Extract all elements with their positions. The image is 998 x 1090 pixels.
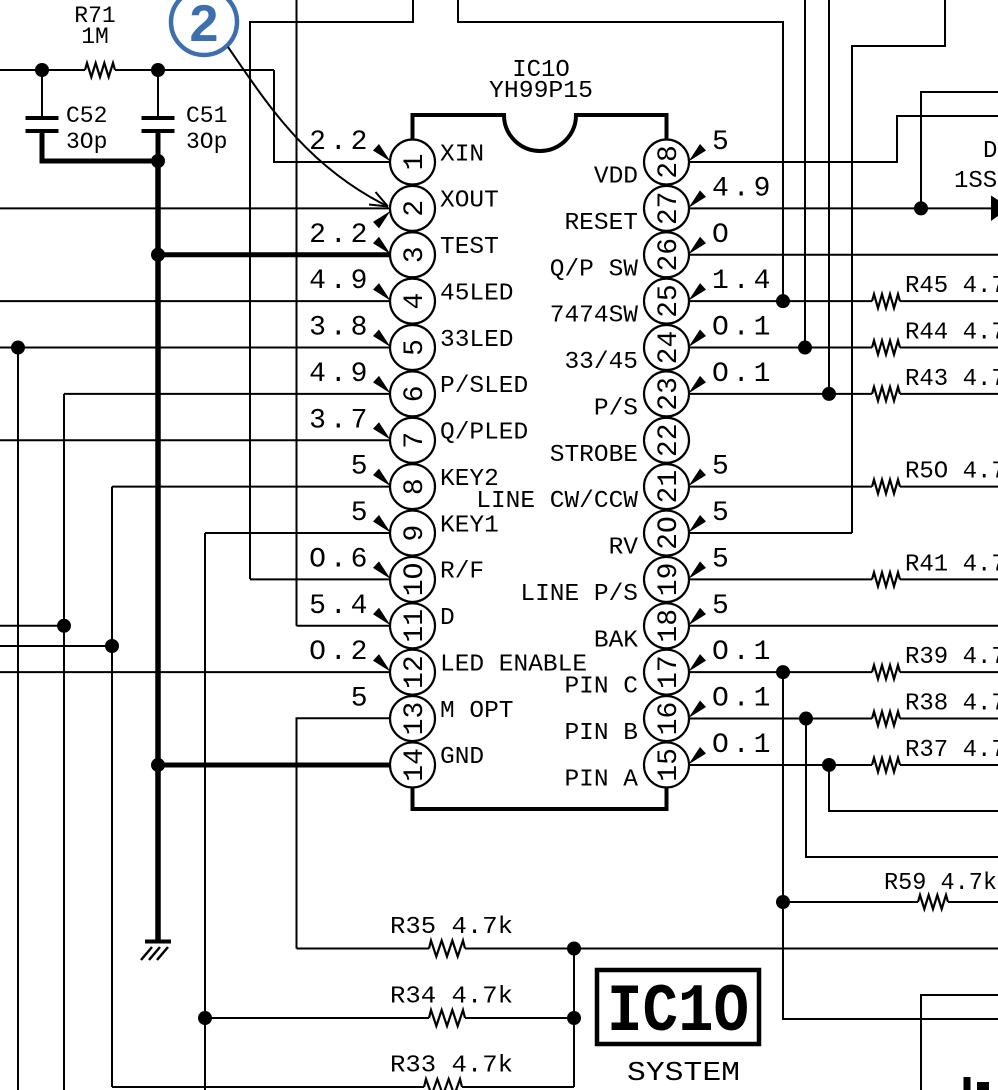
svg-text:2: 2 <box>190 0 219 53</box>
svg-text:16: 16 <box>654 702 685 736</box>
wire R35 row (M OPT net) to right edge <box>297 948 430 950</box>
wire stub left edge y646 to x112 <box>0 645 112 647</box>
pin 18 probe arrow <box>689 608 707 626</box>
svg-text:1SS1: 1SS1 <box>954 168 998 195</box>
junction dot (783,672) <box>776 665 790 679</box>
svg-text:TEST: TEST <box>440 234 499 261</box>
pin 11 probe arrow <box>373 608 391 626</box>
svg-text:3Op: 3Op <box>186 129 227 155</box>
svg-text:19: 19 <box>654 563 685 597</box>
svg-text:13: 13 <box>400 702 431 736</box>
pin 20 probe arrow <box>689 515 707 533</box>
pin 1 probe arrow <box>373 144 391 162</box>
svg-text:STROBE: STROBE <box>550 442 638 469</box>
wire pin9 KEY1 row from x205 <box>205 532 390 534</box>
svg-text:YH99P15: YH99P15 <box>489 78 593 105</box>
IC10 body outline top with notch <box>413 115 667 151</box>
svg-text:BAK: BAK <box>594 627 638 654</box>
svg-text:R59 4.7k: R59 4.7k <box>884 870 997 897</box>
svg-text:XOUT: XOUT <box>440 188 499 215</box>
wire pin4 45LED row from left edge <box>0 300 390 302</box>
wire net P/S from top edge x829 <box>828 0 830 394</box>
pin 27 probe arrow <box>689 190 707 208</box>
wire RESET branch up x921 then right <box>921 92 998 208</box>
wire pin19 LINE-P/S row with R41 <box>690 578 873 580</box>
wire vertical x574 joining R35/R34/R33 <box>573 949 575 1088</box>
pin 15 circle+number <box>644 742 689 787</box>
svg-text:4.9: 4.9 <box>309 266 371 297</box>
wire pin2 XOUT row from left edge <box>0 207 390 209</box>
svg-text:3.7: 3.7 <box>309 405 371 436</box>
svg-text:5: 5 <box>351 452 372 483</box>
pin 20 circle+number <box>644 511 689 556</box>
junction dot bus/TEST (158,255) <box>151 248 165 262</box>
resistor R37 symbol <box>872 758 900 772</box>
pin 28 probe arrow <box>689 144 707 162</box>
wire pin17 PIN-C row with R39 <box>690 671 873 673</box>
resistor R35 symbol <box>429 941 465 957</box>
junction dot (783,301) <box>776 294 790 308</box>
svg-text:KEY1: KEY1 <box>440 512 499 539</box>
svg-text:23: 23 <box>654 377 685 411</box>
svg-text:26: 26 <box>654 238 685 272</box>
svg-text:2: 2 <box>400 200 431 217</box>
svg-text:5: 5 <box>712 127 733 158</box>
pin 3 probe arrow <box>373 237 391 255</box>
wire C51 top lead <box>157 70 159 117</box>
pin 8 probe arrow <box>373 469 391 487</box>
wire pin3 TEST thick from ground bus <box>158 252 390 257</box>
callout open arrowhead at pin 2 <box>369 205 388 207</box>
pin 27 circle+number <box>644 186 689 231</box>
svg-text:O.1: O.1 <box>712 313 774 344</box>
svg-text:24: 24 <box>654 331 685 365</box>
pin 26 probe arrow <box>689 237 707 255</box>
wire pin25 7474SW row with R45 <box>690 300 873 302</box>
wire pin26 Q/P-SW row to right edge <box>690 254 998 256</box>
svg-text:3Op: 3Op <box>66 129 107 155</box>
junction dot (112,646) <box>105 639 119 653</box>
pin 2 probe arrow (below wire) <box>373 211 391 229</box>
wire R34 row (KEY1 net) <box>205 1017 429 1019</box>
svg-text:22: 22 <box>654 423 685 457</box>
resistor R41 symbol <box>872 572 900 586</box>
pin 10 circle+number <box>390 557 435 602</box>
pin 15 probe arrow <box>689 747 707 765</box>
svg-text:15: 15 <box>654 748 685 782</box>
junction dot node XTAL at (42,70) <box>35 63 49 77</box>
wire pin21 LINE-CW/CCW row with R50 <box>690 486 873 488</box>
junction dot (18,347) <box>11 341 25 355</box>
svg-text:C52: C52 <box>66 103 107 129</box>
svg-text:1.4: 1.4 <box>712 266 774 297</box>
IC10 body outline bottom <box>413 787 667 810</box>
svg-text:RESET: RESET <box>564 210 638 237</box>
svg-text:R43 4.7k: R43 4.7k <box>905 366 998 393</box>
resistor R38 symbol <box>872 712 900 726</box>
wire stub left edge y626 to x64 <box>0 625 64 627</box>
callout balloon 2 (blue circle) <box>171 0 237 55</box>
pin 12 circle+number <box>390 650 435 695</box>
svg-text:R35 4.7k: R35 4.7k <box>390 914 513 941</box>
wire vertical x64 to bottom edge <box>63 394 65 1090</box>
wire pin6 P/SLED row from x64 <box>64 393 390 395</box>
svg-text:O.1: O.1 <box>712 359 774 390</box>
junction dot (64,626) <box>57 619 71 633</box>
svg-text:5.4: 5.4 <box>309 591 371 622</box>
pin 7 probe arrow <box>373 422 391 440</box>
junction dot at (158,70) <box>151 63 165 77</box>
svg-text:R38 4.7k: R38 4.7k <box>905 691 998 718</box>
svg-text:PIN C: PIN C <box>564 674 638 701</box>
svg-text:7: 7 <box>400 432 431 449</box>
pin 10 probe arrow <box>373 561 391 579</box>
svg-text:R45 4.7k: R45 4.7k <box>905 273 998 300</box>
wire pin5 33LED row from left edge <box>0 347 390 349</box>
wire PIN-A branch: x829 down then right <box>829 765 998 811</box>
capacitor C52 plates <box>26 116 59 120</box>
wire C51 bottom thick lead <box>156 133 161 161</box>
resistor R44 symbol <box>872 341 900 355</box>
pin 16 circle+number <box>644 696 689 741</box>
pin 9 probe arrow <box>373 515 391 533</box>
svg-text:2.2: 2.2 <box>309 220 371 251</box>
wire pin7 Q/PLED row from left edge <box>0 439 390 441</box>
wire pin28 VDD right then up to top right <box>690 116 998 162</box>
pin 4 probe arrow <box>373 283 391 301</box>
diode D 1SS anode triangle (clipped at edge) <box>991 196 998 222</box>
wire pin11 D row from x296.5 <box>297 625 390 627</box>
svg-text:1: 1 <box>400 154 431 171</box>
junction dot bus/GND (158,765) <box>151 758 165 772</box>
svg-text:O.1: O.1 <box>712 730 774 761</box>
svg-text:M OPT: M OPT <box>440 698 514 725</box>
wire PIN-B branch: x806 down then right <box>806 719 998 857</box>
resistor R59 symbol <box>918 895 948 909</box>
svg-text:5: 5 <box>712 452 733 483</box>
svg-text:LINE P/S: LINE P/S <box>520 581 638 608</box>
svg-text:11: 11 <box>400 609 431 643</box>
svg-text:R39 4.7k: R39 4.7k <box>905 644 998 671</box>
pin 24 probe arrow <box>689 330 707 348</box>
junction dot (921,208) <box>914 201 928 215</box>
pin 8 circle+number <box>390 464 435 509</box>
pin 24 circle+number <box>644 325 689 370</box>
resistor R50 symbol <box>872 480 900 494</box>
svg-text:45LED: 45LED <box>440 280 514 307</box>
pin 4 circle+number <box>390 279 435 324</box>
wire net D(pin11) from top edge x296.5 <box>296 0 298 626</box>
svg-text:3: 3 <box>400 246 431 263</box>
resistor R34 symbol <box>429 1010 465 1026</box>
wire pin1 XIN from R71 net: x274 down then right <box>274 70 390 162</box>
wire pin14 GND thick from ground bus <box>158 762 390 767</box>
svg-text:5: 5 <box>351 684 372 715</box>
resistor R45 symbol <box>872 294 900 308</box>
svg-text:8: 8 <box>400 478 431 495</box>
wire net 33/45 from top edge x805 <box>804 0 806 348</box>
svg-text:4.9: 4.9 <box>309 359 371 390</box>
svg-text:4.9: 4.9 <box>712 173 774 204</box>
junction dot (574,1018) <box>567 1011 581 1025</box>
resistor R33 symbol <box>424 1079 462 1090</box>
wire pin16 PIN-B row with R38 <box>690 718 873 720</box>
partial bold text of adjacent block (bottom right corner) <box>964 1077 971 1090</box>
junction dot ground-bus top (158,161) <box>151 154 165 168</box>
svg-text:R5O 4.7k: R5O 4.7k <box>905 459 998 486</box>
svg-text:LINE CW/CCW: LINE CW/CCW <box>476 488 638 515</box>
junction dot (806,719) <box>799 712 813 726</box>
wire pin13 M-OPT from x296.5 corner <box>297 718 390 948</box>
pin 12 probe arrow <box>373 654 391 672</box>
wire net 7474SW from top edge: x458 down, right, down to pin25 junction <box>458 0 783 301</box>
svg-text:P/S: P/S <box>594 395 638 422</box>
svg-text:O.1: O.1 <box>712 637 774 668</box>
svg-text:9: 9 <box>400 525 431 542</box>
svg-text:R37 4.7k: R37 4.7k <box>905 737 998 764</box>
wire net RV from top edge: x945 down, left, down to pin20 row <box>852 0 945 533</box>
wire vertical x18 to bottom edge <box>17 348 19 1090</box>
callout leader curve to pin 2 <box>228 47 388 207</box>
wire corner (921,995) right and down <box>921 995 998 1090</box>
pin 25 circle+number <box>644 279 689 324</box>
svg-text:6: 6 <box>400 385 431 402</box>
pin 17 probe arrow <box>689 654 707 672</box>
wire pin10 R/F row from x250 <box>250 578 390 580</box>
pin 23 circle+number <box>644 371 689 416</box>
svg-text:1O: 1O <box>400 563 431 597</box>
svg-text:18: 18 <box>654 609 685 643</box>
wire pin23 P/S row with R43 <box>690 393 873 395</box>
wire R33 row (KEY2 net) <box>112 1086 424 1088</box>
svg-text:IC1O: IC1O <box>607 974 749 1051</box>
svg-text:XIN: XIN <box>440 141 484 168</box>
svg-text:5: 5 <box>712 591 733 622</box>
junction dot (783,902) <box>776 895 790 909</box>
resistor R71 symbol <box>85 63 115 77</box>
svg-text:O: O <box>712 220 733 251</box>
svg-text:5: 5 <box>400 339 431 356</box>
junction dot (805,347) <box>798 341 812 355</box>
svg-text:R41 4.7k: R41 4.7k <box>905 551 998 578</box>
svg-text:27: 27 <box>654 192 685 226</box>
pin 26 circle+number <box>644 232 689 277</box>
pin 22 circle+number <box>644 418 689 463</box>
pin 14 circle+number <box>390 742 435 787</box>
pin 6 circle+number <box>390 371 435 416</box>
svg-text:Q/P SW: Q/P SW <box>550 256 639 283</box>
svg-text:VDD: VDD <box>594 164 638 191</box>
svg-text:5: 5 <box>712 498 733 529</box>
pin 2 circle+number <box>390 186 435 231</box>
junction dot (205,1018) <box>198 1011 212 1025</box>
svg-text:28: 28 <box>654 145 685 179</box>
pin 6 probe arrow <box>373 376 391 394</box>
wire vertical x205 to bottom edge <box>204 533 206 1090</box>
svg-text:1M: 1M <box>81 24 109 50</box>
svg-text:12: 12 <box>400 655 431 689</box>
pin 13 circle+number <box>390 696 435 741</box>
svg-text:D: D <box>983 138 997 165</box>
svg-text:O.6: O.6 <box>309 544 371 575</box>
wire pin24 33/45 row with R44 <box>690 347 873 349</box>
svg-text:17: 17 <box>654 655 685 689</box>
junction dot (574,948.5) <box>567 942 581 956</box>
pin 19 circle+number <box>644 557 689 602</box>
pin 11 circle+number <box>390 603 435 648</box>
svg-text:2.2: 2.2 <box>309 127 371 158</box>
svg-text:3.8: 3.8 <box>309 313 371 344</box>
svg-text:R44 4.7k: R44 4.7k <box>905 320 998 347</box>
wire C52 bottom thick L to ground bus <box>42 133 158 161</box>
svg-text:O.2: O.2 <box>309 637 371 668</box>
pin 17 circle+number <box>644 650 689 695</box>
svg-text:D: D <box>440 605 455 632</box>
ground symbol <box>145 940 171 944</box>
svg-text:GND: GND <box>440 744 484 771</box>
pin 5 probe arrow <box>373 330 391 348</box>
svg-text:33/45: 33/45 <box>564 349 638 376</box>
svg-text:P/SLED: P/SLED <box>440 373 528 400</box>
svg-text:SYSTEM: SYSTEM <box>627 1059 740 1089</box>
svg-text:21: 21 <box>654 470 685 504</box>
pin 21 probe arrow <box>689 469 707 487</box>
svg-text:5: 5 <box>712 544 733 575</box>
wire pin8 KEY2 row from x112 <box>112 486 390 488</box>
wire pin18 BAK row to right edge <box>690 625 998 627</box>
pin 18 circle+number <box>644 603 689 648</box>
svg-text:33LED: 33LED <box>440 327 514 354</box>
svg-text:PIN B: PIN B <box>564 720 638 747</box>
pin 28 circle+number <box>644 140 689 185</box>
pin 23 probe arrow <box>689 376 707 394</box>
svg-text:25: 25 <box>654 284 685 318</box>
svg-text:R34 4.7k: R34 4.7k <box>390 984 513 1011</box>
pin 3 circle+number <box>390 232 435 277</box>
wire R59 row from junction <box>783 901 918 903</box>
svg-text:R/F: R/F <box>440 559 484 586</box>
pin 1 circle+number <box>390 140 435 185</box>
wire pin27 RESET row to diode <box>690 207 993 209</box>
wire pin20 RV row to x852 <box>690 532 853 534</box>
wire PIN-C branch: x783 down to corner then right <box>783 672 998 1019</box>
wire vertical x112 down to R33 row <box>111 487 113 1087</box>
wire pin15 PIN-A row with R37 <box>690 764 873 766</box>
wire pin12 LED-ENABLE row from left edge <box>0 671 390 673</box>
resistor R39 symbol <box>872 665 900 679</box>
pin 25 probe arrow <box>689 283 707 301</box>
resistor R43 symbol <box>872 387 900 401</box>
wire net XIN/R71 horizontal y=70 <box>0 69 85 71</box>
junction dot (829,394) <box>822 387 836 401</box>
wire net R/F from top edge: x413 down,left,down to pin10 corner <box>250 0 413 579</box>
svg-text:C51: C51 <box>186 103 227 129</box>
svg-text:O.1: O.1 <box>712 684 774 715</box>
pin 19 probe arrow <box>689 561 707 579</box>
svg-text:7474SW: 7474SW <box>550 303 639 330</box>
capacitor C51 plates <box>142 116 175 120</box>
svg-text:14: 14 <box>400 748 431 782</box>
IC10 designator box <box>597 970 759 1044</box>
svg-text:4: 4 <box>400 293 431 310</box>
svg-text:5: 5 <box>351 498 372 529</box>
pin 5 circle+number <box>390 325 435 370</box>
pin 9 circle+number <box>390 511 435 556</box>
svg-text:RV: RV <box>609 535 639 562</box>
svg-text:PIN A: PIN A <box>564 766 638 793</box>
ground bus thick vertical <box>155 161 161 941</box>
junction dot (829,765) <box>822 758 836 772</box>
pin 21 circle+number <box>644 464 689 509</box>
pin 16 probe arrow <box>689 701 707 719</box>
svg-text:2O: 2O <box>654 516 685 550</box>
wire C52 top lead <box>41 70 43 117</box>
pin 7 circle+number <box>390 418 435 463</box>
svg-text:R33 4.7k: R33 4.7k <box>390 1053 513 1080</box>
svg-text:Q/PLED: Q/PLED <box>440 420 528 447</box>
